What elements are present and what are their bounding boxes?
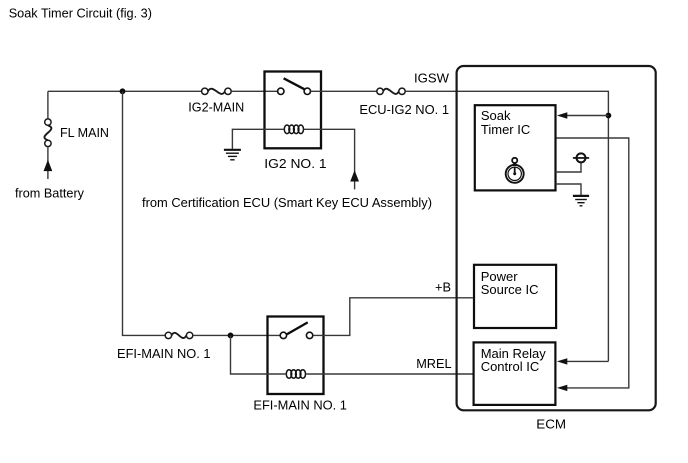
- wire: FL MAIN fuse to battery arrow: [47, 147, 49, 179]
- svg-text:ECM: ECM: [536, 416, 566, 431]
- svg-text:Soak Timer Circuit (fig. 3): Soak Timer Circuit (fig. 3): [9, 5, 152, 20]
- relay EFI-MAIN NO. 1 : left contact: [280, 332, 286, 338]
- wire: FL MAIN drop from top wire: [47, 91, 49, 119]
- junction dot D1 on top wire: [120, 88, 126, 94]
- svg-text:IG2 NO. 1: IG2 NO. 1: [264, 156, 326, 171]
- relay IG2 NO. 1 : switch blade: [284, 78, 305, 89]
- arrow into Soak Timer IC: [566, 115, 608, 117]
- svg-text:Control IC: Control IC: [481, 359, 540, 374]
- fuse FL MAIN (fusible link): [44, 119, 51, 147]
- ECM box: [457, 66, 656, 410]
- relay IG2 NO. 1 : box: [265, 72, 322, 149]
- junction dot D3 on IGSW vertical: [606, 113, 612, 119]
- Main Relay Control IC box: [474, 342, 556, 405]
- svg-text:EFI-MAIN NO. 1: EFI-MAIN NO. 1: [117, 346, 211, 361]
- svg-text:Soak: Soak: [481, 108, 511, 123]
- relay EFI-MAIN NO. 1 : box: [268, 317, 324, 395]
- svg-text:EFI-MAIN NO. 1: EFI-MAIN NO. 1: [253, 397, 347, 412]
- wire: Soak Timer IC to ground: [556, 184, 582, 195]
- wire: +B net from relay right contact to Power Source IC: [313, 298, 473, 336]
- wire: coil right down to certification arrow: [304, 129, 355, 189]
- wire: battery top feed from FL MAIN corner to IG2-MAIN fuse: [48, 90, 202, 92]
- relay IG2 NO. 1 : coil: [284, 125, 303, 134]
- Soak Timer IC box: [475, 105, 556, 190]
- arrow into Main Relay Control IC (from Soak Timer IC): [557, 385, 567, 391]
- Power Source IC box: [474, 265, 556, 328]
- relay EFI-MAIN NO. 1 : coil: [286, 370, 305, 379]
- svg-text:Timer IC: Timer IC: [481, 122, 530, 137]
- relay EFI-MAIN NO. 1 : right contact: [306, 332, 312, 338]
- relay IG2 NO. 1 : right contact: [304, 88, 310, 94]
- arrow into Main Relay Control IC (from IGSW net): [566, 360, 608, 362]
- svg-text:from Battery: from Battery: [15, 186, 84, 201]
- arrow from Battery (up): [44, 160, 53, 171]
- svg-text:FL MAIN: FL MAIN: [60, 125, 109, 140]
- svg-text:from Certification ECU (Smart: from Certification ECU (Smart Key ECU As…: [142, 195, 432, 210]
- wire: IG2 relay right contact to ECU-IG2 fuse: [311, 90, 377, 92]
- svg-text:IGSW: IGSW: [414, 70, 450, 85]
- wire: main feed down left side to EFI-MAIN fuse: [123, 91, 166, 335]
- fuse IG2-MAIN: [202, 88, 232, 94]
- fuse EFI-MAIN NO. 1: [165, 332, 193, 338]
- svg-text:+B: +B: [435, 279, 451, 294]
- wire: EFI fuse to relay left contact: [193, 334, 280, 336]
- relay IG2 NO. 1 : left contact: [278, 88, 284, 94]
- ground symbol at IG2 relay coil: [224, 150, 241, 160]
- svg-text:ECU-IG2 NO. 1: ECU-IG2 NO. 1: [359, 102, 449, 117]
- wire: MREL net from junction through coil left: [231, 335, 287, 374]
- svg-text:Source IC: Source IC: [481, 282, 539, 297]
- junction dot D2: [228, 333, 234, 339]
- svg-text:IG2-MAIN: IG2-MAIN: [188, 100, 244, 115]
- wire: MREL net coil right to Main Relay Control IC: [306, 373, 473, 375]
- wire: coil left to ground branch: [232, 129, 284, 149]
- wire: IG2-MAIN fuse to IG2 relay left contact: [231, 90, 277, 92]
- terminal symbol on Soak Timer IC: [556, 163, 582, 172]
- wire: Soak Timer IC output to Main Relay Control IC: [556, 138, 629, 388]
- arrow from Certification ECU (up): [350, 170, 359, 181]
- ground symbol in ECM: [573, 196, 589, 206]
- fuse ECU-IG2 NO. 1: [377, 88, 405, 94]
- svg-text:MREL: MREL: [416, 356, 451, 371]
- stopwatch icon in Soak Timer IC: [506, 158, 524, 183]
- wire: IGSW net into ECM, down right side: [405, 91, 608, 361]
- relay EFI-MAIN NO. 1 : switch blade: [287, 322, 308, 334]
